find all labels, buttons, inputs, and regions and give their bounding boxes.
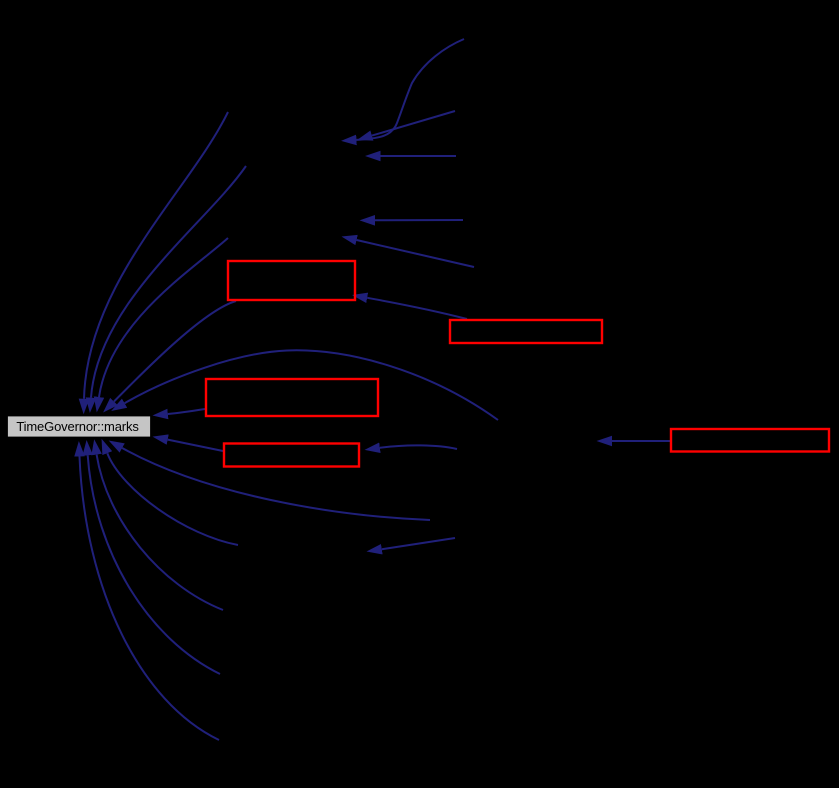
svg-text:TimeGovernor::marks: TimeGovernor::marks bbox=[16, 419, 139, 434]
edge U5: hidden node R arc over box C to TimeGovernor::marks bbox=[125, 350, 498, 420]
edge horizontal y220: hidden caller to hidden node T3 bbox=[375, 219, 463, 221]
edge D-to-marks bbox=[168, 440, 223, 451]
edge U3: hidden caller node T3 to TimeGovernor::marks bbox=[99, 238, 228, 397]
node TimeGovernor::marks (current node, grey) bbox=[7, 416, 151, 438]
edge horizontal y156: hidden caller to hidden node T2 bbox=[381, 155, 457, 157]
node C: red caller box bbox=[206, 379, 378, 416]
node B: red caller box bbox=[450, 320, 602, 343]
edge C-to-marks bbox=[168, 409, 205, 414]
edge U4: node A to TimeGovernor::marks bbox=[114, 301, 236, 402]
edge straight: hidden caller to hidden node T1 bbox=[372, 111, 455, 136]
edge into D from hidden node bbox=[380, 445, 457, 449]
edge S-curve: far hidden caller to hidden node T1 bbox=[357, 39, 465, 140]
edge B-to-A bbox=[367, 298, 467, 319]
edge F4: hidden node to marks bbox=[88, 455, 220, 674]
edge U1: hidden caller node T1 to TimeGovernor::marks bbox=[84, 112, 228, 399]
node D: red caller box bbox=[224, 444, 359, 467]
edge N2-to-N1 hidden nodes bbox=[382, 538, 455, 549]
edge F2: hidden node N1 to marks bbox=[107, 453, 238, 545]
edge diagonal y236: hidden caller to hidden node T3 bbox=[357, 240, 474, 267]
edge F5: hidden node to marks bbox=[80, 457, 220, 741]
edge E-to-R hidden node bbox=[612, 440, 670, 442]
node A: red caller box bbox=[228, 261, 355, 300]
edge F1: hidden node to marks, long flat lower edge bbox=[122, 448, 430, 520]
node E: red caller box bbox=[671, 429, 829, 452]
edge U2: hidden caller node T2 to TimeGovernor::marks bbox=[91, 166, 246, 398]
edge F3: hidden node to marks bbox=[97, 455, 223, 610]
